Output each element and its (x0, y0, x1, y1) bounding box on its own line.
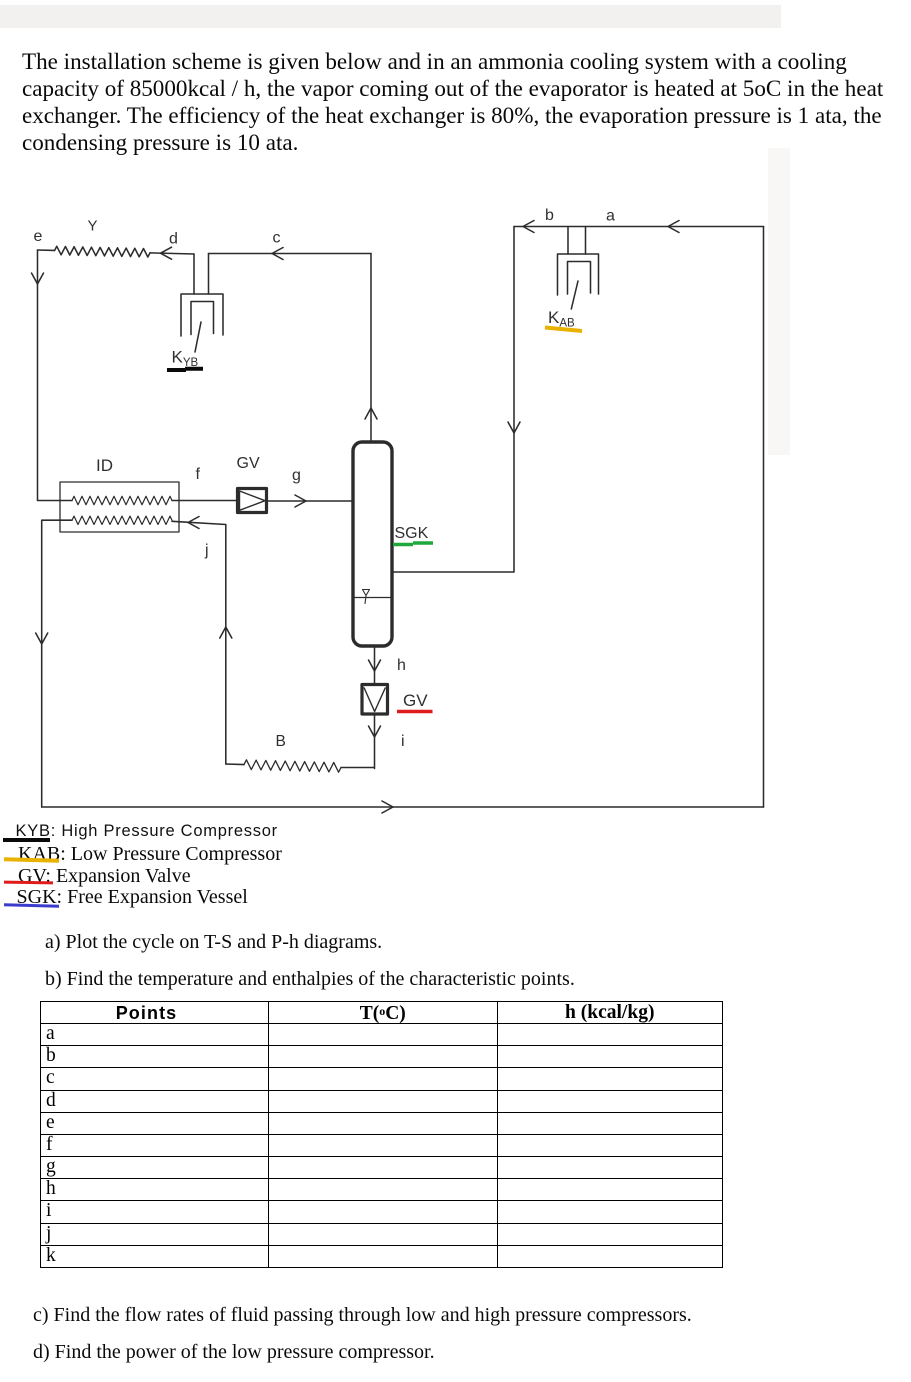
svg-text:d: d (169, 231, 178, 248)
svg-text:b: b (545, 207, 554, 224)
svg-text:a: a (606, 208, 615, 225)
svg-text:e: e (34, 228, 43, 245)
svg-text:h: h (397, 657, 406, 674)
svg-text:g: g (292, 467, 301, 484)
svg-text:f: f (196, 466, 201, 483)
svg-text:GV: GV (403, 691, 428, 710)
svg-text:GV: GV (237, 455, 260, 472)
svg-text:SGK: SGK (395, 525, 429, 542)
svg-text:Y: Y (88, 218, 98, 235)
svg-text:B: B (276, 733, 286, 750)
svg-text:c: c (273, 230, 281, 247)
svg-text:KAB: KAB (548, 308, 575, 330)
svg-text:KYB: KYB (172, 348, 199, 370)
svg-text:j: j (204, 542, 209, 559)
svg-text:ID: ID (96, 456, 113, 475)
svg-text:i: i (401, 733, 405, 750)
